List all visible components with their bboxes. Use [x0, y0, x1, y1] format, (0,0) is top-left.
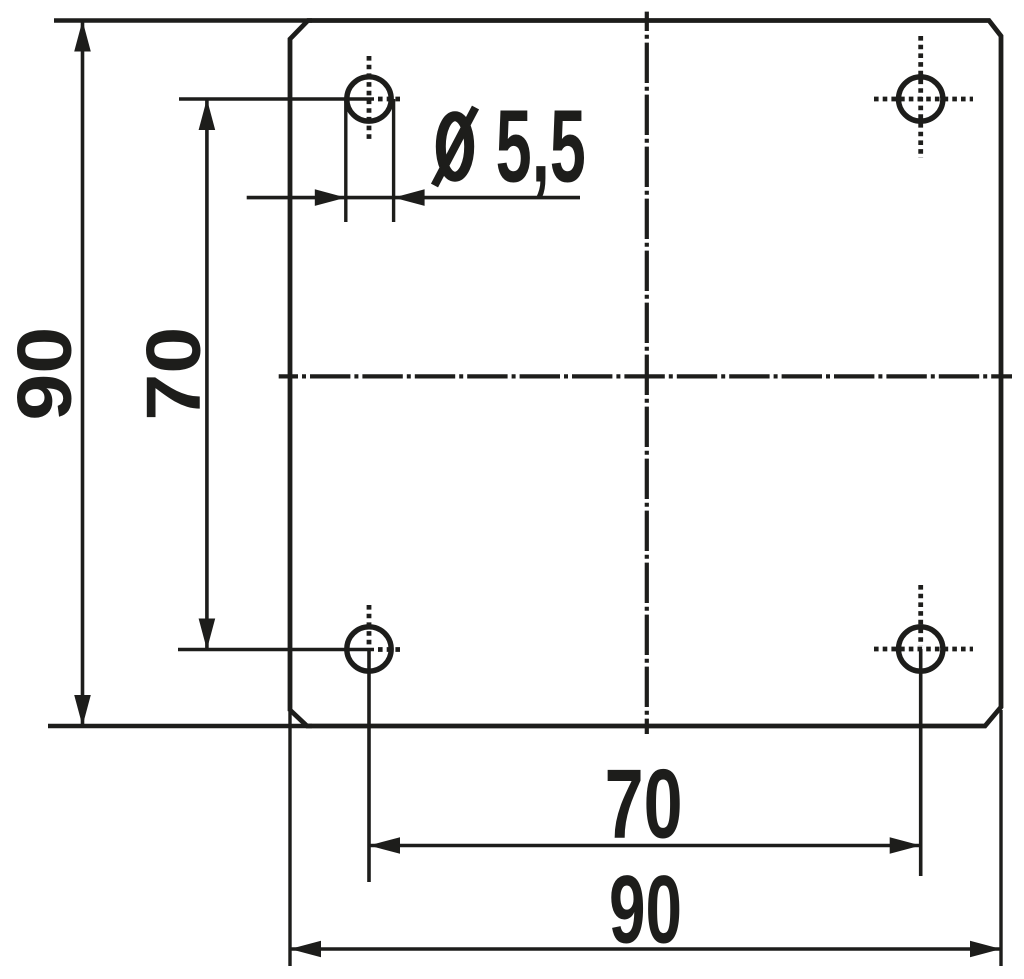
- arrowhead left, bottom 70: [369, 837, 400, 854]
- arrowhead down, 70 left bottom: [199, 619, 216, 650]
- extension line: bottom-left hole down for bottom 70 dim: [367, 649, 371, 882]
- hole top-right: [899, 77, 943, 121]
- extension line: plate left edge extended down for bottom 90 dim: [288, 712, 291, 966]
- hole bottom-left: [347, 627, 391, 671]
- centre mark vertical, hole top-left: [367, 56, 372, 142]
- extension line: bottom-right hole down for bottom 70 dim: [919, 649, 923, 876]
- dimension line for hole diameter: [247, 196, 580, 200]
- arrowhead up, 90 left top: [74, 21, 91, 52]
- centre mark horizontal, hole top-right: [874, 97, 973, 102]
- arrowhead up, 70 left top: [199, 99, 216, 130]
- dotted continuation right of bottom-left hole centre: [378, 647, 404, 652]
- extension line: plate right edge extended down for bottom 90 dim: [999, 710, 1002, 966]
- arrowhead pointing left at right tangent: [394, 189, 425, 206]
- dotted continuation right of top-left hole centre: [378, 97, 404, 102]
- centre mark vertical above, hole bottom-right: [918, 585, 923, 646]
- arrowhead down, 90 left bottom: [74, 695, 91, 726]
- centre mark vertical, hole top-right: [918, 36, 923, 158]
- centre mark horizontal, hole bottom-right: [874, 647, 973, 652]
- plate outline (chamfered square): [290, 21, 1001, 727]
- svg-text:90: 90: [3, 327, 89, 421]
- svg-text:70: 70: [132, 327, 218, 421]
- extension line: 70 upper (through top-left hole centre): [179, 97, 374, 101]
- arrowhead right, bottom 70: [890, 837, 921, 854]
- centre mark vertical above, hole bottom-left: [367, 605, 372, 646]
- horizontal centreline of plate (dash-dot): [279, 374, 1012, 378]
- arrowhead pointing right at left tangent: [315, 189, 346, 206]
- vertical centreline of plate (dash-dot): [645, 12, 649, 734]
- label diameter symbol (drawn): [441, 116, 469, 176]
- extension line: 70 lower (through bottom-left hole centre): [178, 648, 374, 652]
- arrowhead right, bottom 90: [970, 941, 1001, 958]
- extension line: hole diameter left tangent: [344, 99, 347, 222]
- extension line: hole diameter right tangent: [392, 99, 395, 222]
- dimension line 90 vertical (left): [81, 22, 85, 725]
- arrowhead left, bottom 90: [290, 941, 321, 958]
- dimension line 70 horizontal (bottom): [370, 844, 920, 848]
- hole bottom-right: [899, 627, 943, 671]
- svg-text:5,5: 5,5: [496, 89, 586, 204]
- svg-text:70: 70: [605, 750, 683, 859]
- dimension line 90 horizontal (bottom): [291, 947, 1000, 951]
- extension line: bottom 90 left (collinear with bottom edge, to the left): [48, 724, 312, 728]
- hole top-left: [347, 77, 391, 121]
- dimension line 70 vertical (left): [205, 100, 209, 649]
- extension line: top 90 (collinear with top edge, to the left): [54, 18, 312, 22]
- svg-text:90: 90: [609, 856, 682, 964]
